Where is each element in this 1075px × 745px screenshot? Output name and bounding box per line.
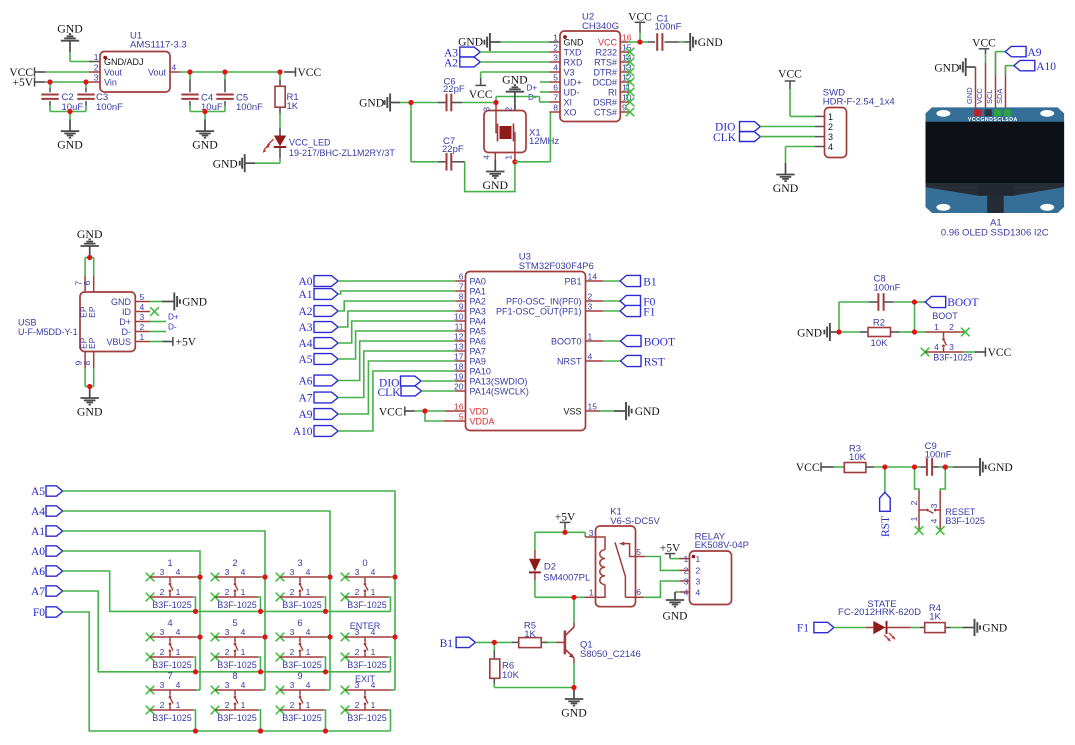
- svg-text:GND: GND: [988, 462, 1013, 474]
- junction at C5: [222, 69, 227, 74]
- svg-text:VCC: VCC: [975, 88, 984, 104]
- svg-text:1: 1: [696, 554, 701, 564]
- svg-text:STM32F030F4P6: STM32F030F4P6: [519, 261, 594, 272]
- svg-text:F0: F0: [33, 607, 45, 619]
- svg-text:4: 4: [306, 627, 311, 637]
- svg-text:3: 3: [482, 107, 492, 112]
- net flag A10 (SDA): [1006, 60, 1057, 110]
- wire keypad ENTER bottom hook: [388, 657, 391, 672]
- svg-text:2: 2: [828, 122, 833, 132]
- resistor R3 10K: [834, 443, 915, 472]
- svg-text:11: 11: [455, 322, 464, 332]
- LED STATE FC-2012HRK-620D: [834, 599, 925, 642]
- wire F0 row bus: [63, 612, 391, 731]
- svg-text:PA6: PA6: [470, 337, 486, 347]
- wire UD+ stub D+: [527, 82, 561, 93]
- svg-text:XI: XI: [564, 98, 573, 108]
- svg-text:5: 5: [232, 618, 237, 629]
- port VCC (SWD): [778, 69, 802, 117]
- capacitor C2 10uF: [41, 82, 83, 113]
- svg-text:7: 7: [553, 93, 558, 103]
- wire A10 to U3: [338, 371, 455, 431]
- svg-text:PA0: PA0: [470, 277, 486, 287]
- left pin stubs U3: [456, 281, 466, 391]
- svg-text:GND: GND: [773, 181, 799, 195]
- net flag A3: [298, 322, 338, 335]
- svg-text:GND: GND: [982, 623, 1007, 635]
- svg-text:2: 2: [225, 647, 230, 657]
- ground GND (C9): [980, 458, 1013, 476]
- svg-text:1: 1: [167, 558, 172, 569]
- net flag F0 (keypad): [33, 607, 63, 619]
- svg-text:3: 3: [355, 567, 360, 577]
- svg-text:GND: GND: [359, 98, 384, 110]
- ground GND (below crystal pin4): [483, 152, 509, 192]
- svg-text:A7: A7: [298, 393, 312, 405]
- port +5V (K1): [555, 511, 576, 532]
- ground GND (above U1 pin1): [57, 22, 89, 62]
- svg-text:PA14(SWCLK): PA14(SWCLK): [470, 387, 529, 397]
- svg-text:12MHz: 12MHz: [529, 136, 559, 147]
- junction C6-C7 branch: [408, 100, 413, 105]
- svg-text:5: 5: [459, 412, 464, 422]
- junction XI-crystal: [493, 100, 498, 105]
- svg-text:2: 2: [696, 566, 701, 576]
- svg-text:Vout: Vout: [148, 68, 167, 78]
- svg-text:FC-2012HRK-620D: FC-2012HRK-620D: [838, 607, 921, 618]
- wire UD- stub D-: [528, 92, 560, 102]
- wire A3 to TXD: [480, 51, 560, 53]
- svg-text:VCC: VCC: [598, 38, 618, 48]
- svg-text:B3F-1025: B3F-1025: [152, 713, 192, 723]
- pushbutton keypad 4 B3F-1025: [146, 618, 200, 670]
- svg-text:BOOT0: BOOT0: [551, 337, 582, 347]
- ground GND (R2): [797, 323, 839, 341]
- svg-text:A1: A1: [990, 217, 1002, 228]
- capacitor C6 22pF: [411, 76, 496, 111]
- svg-text:10K: 10K: [502, 670, 520, 681]
- svg-text:USB: USB: [18, 318, 37, 328]
- resistor R6 10K: [490, 642, 520, 687]
- wire CLK to pin3: [760, 136, 824, 138]
- junction keypad bus r3c3: [323, 728, 328, 733]
- svg-text:B1: B1: [440, 638, 454, 650]
- svg-text:6: 6: [82, 281, 92, 286]
- wire VCC to VDD VDDA: [415, 411, 466, 421]
- svg-text:6: 6: [459, 272, 464, 282]
- port VCC (V3 pin): [469, 85, 493, 100]
- net flag DIO (U3): [379, 376, 421, 389]
- svg-text:B3F-1025: B3F-1025: [217, 713, 257, 723]
- svg-text:1: 1: [176, 647, 181, 657]
- junction keypad column c1r2: [197, 634, 202, 639]
- wire VCC to pin2: [45, 71, 100, 73]
- svg-text:12: 12: [454, 332, 464, 342]
- svg-text:1: 1: [828, 112, 833, 122]
- net flag A7: [298, 392, 338, 405]
- wire A7 to U3: [338, 351, 455, 398]
- port VCC (left): [9, 67, 45, 79]
- port +5V (relay): [660, 542, 690, 558]
- svg-text:A10: A10: [1036, 61, 1056, 73]
- wire pin4 VCC rail: [170, 71, 280, 73]
- wire B1 to R5: [475, 641, 518, 643]
- svg-text:VCC: VCC: [972, 38, 996, 50]
- svg-text:1: 1: [371, 587, 376, 597]
- svg-text:GND: GND: [57, 138, 83, 152]
- svg-text:2: 2: [160, 647, 165, 657]
- svg-text:B3F-1025: B3F-1025: [152, 600, 192, 610]
- svg-text:2: 2: [355, 647, 360, 657]
- svg-text:4: 4: [482, 155, 492, 160]
- svg-text:2: 2: [909, 500, 919, 505]
- net flag DIO (SWD): [715, 122, 760, 134]
- svg-text:DTR#: DTR#: [593, 68, 617, 78]
- wire C2-C3 ground bus: [50, 111, 86, 113]
- ground GND (R4): [975, 619, 1008, 636]
- net flag A9 (SCL): [996, 46, 1042, 110]
- svg-text:RI: RI: [608, 88, 617, 98]
- wire +5V rail to pin3: [45, 81, 100, 83]
- svg-text:SM4007PL: SM4007PL: [543, 573, 590, 584]
- svg-text:3: 3: [290, 680, 295, 690]
- wire A2 to RXD: [480, 61, 560, 63]
- junction keypad bus r2c2: [258, 669, 263, 674]
- svg-text:2: 2: [94, 62, 99, 72]
- ic U3 STM32F030F4P6: [454, 251, 597, 430]
- junction crystal pin1: [512, 152, 517, 164]
- svg-text:+5V: +5V: [12, 77, 33, 89]
- svg-text:4: 4: [371, 680, 376, 690]
- svg-text:A1: A1: [31, 526, 45, 538]
- svg-text:GND: GND: [213, 158, 238, 170]
- svg-text:+5V: +5V: [660, 542, 681, 554]
- svg-text:8: 8: [459, 292, 464, 302]
- capacitor C8 100nF: [839, 274, 915, 311]
- wire A1 to U3: [338, 291, 455, 294]
- svg-text:GND: GND: [561, 706, 587, 720]
- svg-text:VCC: VCC: [469, 89, 493, 101]
- svg-text:4: 4: [828, 142, 833, 152]
- junction +5V K1: [562, 530, 567, 535]
- svg-text:U-F-M5DD-Y-1: U-F-M5DD-Y-1: [18, 327, 78, 337]
- junction ground bus: [67, 109, 72, 114]
- svg-text:VCC: VCC: [298, 67, 322, 79]
- svg-text:D+: D+: [119, 317, 131, 327]
- svg-text:15: 15: [588, 402, 598, 412]
- net flag A5: [298, 354, 338, 367]
- svg-text:3: 3: [297, 558, 302, 569]
- svg-text:1: 1: [306, 587, 311, 597]
- svg-text:4: 4: [371, 567, 376, 577]
- net flag A0 (keypad): [31, 546, 63, 558]
- svg-text:+5V: +5V: [176, 337, 197, 349]
- svg-text:22pF: 22pF: [443, 84, 465, 95]
- svg-text:GND: GND: [182, 297, 207, 309]
- wire USB pin5 to GND: [135, 301, 162, 303]
- junction R2 right: [912, 329, 917, 334]
- wire C4-C5 ground bus: [190, 111, 225, 113]
- capacitor C1 100nF: [640, 14, 690, 51]
- svg-text:2: 2: [355, 700, 360, 710]
- svg-text:8: 8: [82, 361, 92, 366]
- wire USB D- label: [135, 323, 177, 332]
- svg-text:1: 1: [306, 647, 311, 657]
- svg-text:3: 3: [696, 576, 701, 586]
- svg-text:3: 3: [929, 503, 939, 508]
- svg-text:1: 1: [241, 647, 246, 657]
- capacitor C4 10uF: [181, 72, 223, 113]
- junction keypad bus r1c1: [193, 609, 198, 614]
- wire keypad 3 bottom hook: [323, 597, 326, 611]
- svg-text:PA9: PA9: [470, 357, 486, 367]
- svg-text:A2: A2: [298, 306, 312, 318]
- net flag CLK (U3): [378, 386, 422, 399]
- pushbutton keypad 2 B3F-1025: [211, 558, 265, 610]
- svg-text:V3: V3: [564, 68, 575, 78]
- wire GND pin OLED: [975, 67, 977, 110]
- svg-text:PA1: PA1: [470, 287, 486, 297]
- wire A9 to U3: [338, 361, 455, 414]
- wire DIO to PA13: [421, 380, 456, 382]
- svg-text:5: 5: [140, 292, 145, 302]
- svg-text:B3F-1025: B3F-1025: [347, 713, 387, 723]
- svg-text:B3F-1025: B3F-1025: [217, 600, 257, 610]
- wire CLK to PA14: [422, 390, 456, 392]
- svg-text:17: 17: [454, 352, 464, 362]
- svg-text:10K: 10K: [849, 452, 867, 463]
- svg-text:2: 2: [290, 647, 295, 657]
- svg-text:7: 7: [459, 282, 464, 292]
- junction R6 branch: [492, 640, 497, 645]
- wire keypad 4 bottom hook: [193, 657, 196, 672]
- junction keypad bus r2c1: [193, 669, 198, 674]
- wire A4 to U3: [338, 321, 455, 343]
- svg-text:2: 2: [232, 558, 237, 569]
- svg-text:8: 8: [232, 671, 237, 682]
- svg-text:6: 6: [297, 618, 302, 629]
- junction C8 right: [912, 299, 917, 304]
- svg-text:4: 4: [176, 627, 181, 637]
- svg-text:A9: A9: [298, 409, 312, 421]
- svg-text:PA2: PA2: [470, 297, 486, 307]
- svg-text:5: 5: [636, 547, 641, 557]
- svg-text:B3F-1025: B3F-1025: [282, 713, 322, 723]
- svg-text:3: 3: [225, 627, 230, 637]
- svg-text:GND: GND: [797, 328, 822, 340]
- net flag F1 (STATE): [797, 622, 834, 634]
- wire A3 to U3: [338, 311, 455, 327]
- svg-text:1K: 1K: [929, 611, 941, 622]
- svg-text:1: 1: [504, 155, 514, 160]
- net flag A3: [444, 47, 480, 60]
- port VCC (BOOT button): [964, 347, 1012, 359]
- ic U2 CH340G: [553, 12, 631, 122]
- svg-text:100nF: 100nF: [655, 21, 682, 32]
- junction at C2: [47, 79, 52, 84]
- port VCC (right of U1): [280, 67, 321, 79]
- svg-text:5: 5: [553, 73, 558, 83]
- svg-text:D-: D-: [528, 93, 537, 102]
- svg-text:0: 0: [362, 558, 367, 569]
- wire K1 pin5 to relay pin2: [636, 557, 690, 571]
- pushbutton keypad 7 B3F-1025: [146, 671, 200, 723]
- pushbutton keypad EXIT B3F-1025: [341, 674, 395, 723]
- junction pin16: [637, 39, 642, 44]
- pushbutton keypad 1 B3F-1025: [146, 558, 200, 610]
- ground GND (U2 pin1): [458, 33, 500, 51]
- ground GND (VSS): [626, 402, 660, 420]
- wire keypad EXIT bottom hook: [388, 710, 391, 731]
- svg-text:A2: A2: [444, 58, 458, 70]
- svg-text:D+: D+: [168, 313, 179, 322]
- connector USB U-F-M5DD-Y-1: [18, 281, 145, 366]
- svg-text:VSS: VSS: [563, 407, 581, 417]
- no-connect pins 15-9: [620, 48, 634, 117]
- transistor Q1 S8050_C2146: [565, 623, 641, 663]
- ground GND (right of C1): [690, 33, 723, 51]
- net flag RST (pointing up): [880, 467, 892, 537]
- wire C9 to GND: [945, 466, 979, 468]
- svg-text:D-: D-: [168, 323, 177, 332]
- svg-text:2: 2: [504, 107, 514, 112]
- port VCC (R3): [796, 462, 834, 474]
- junction keypad column c1r1: [197, 574, 202, 579]
- svg-text:3: 3: [160, 680, 165, 690]
- svg-text:+5V: +5V: [555, 511, 576, 523]
- wire pin4 to GND: [786, 147, 825, 164]
- LED VCC_LED: [263, 136, 396, 164]
- net flag A6: [298, 375, 338, 388]
- svg-text:PF0-OSC_IN(PF0): PF0-OSC_IN(PF0): [506, 297, 582, 307]
- ground GND (USB top): [77, 227, 103, 258]
- net flag A2: [298, 306, 338, 319]
- svg-text:B3F-1025: B3F-1025: [347, 660, 387, 670]
- crystal X1 12MHz: [482, 107, 560, 160]
- svg-text:2: 2: [160, 700, 165, 710]
- svg-text:18: 18: [454, 362, 464, 372]
- svg-text:PA5: PA5: [470, 327, 486, 337]
- wire keypad 5 bottom hook: [258, 657, 261, 672]
- svg-text:A10: A10: [293, 426, 313, 438]
- svg-text:A9: A9: [1028, 47, 1042, 59]
- junction keypad column c2r2: [262, 634, 267, 639]
- wire keypad 7 bottom hook: [193, 710, 196, 731]
- svg-text:1: 1: [371, 700, 376, 710]
- svg-text:VDD: VDD: [470, 407, 490, 417]
- junction RST branch: [882, 464, 887, 469]
- pushbutton keypad 3 B3F-1025: [276, 558, 330, 610]
- OLED pin labels: [965, 87, 1004, 104]
- svg-text:RST: RST: [880, 516, 892, 537]
- junction at R1: [277, 69, 282, 74]
- wire A0 to U3: [338, 280, 455, 282]
- wire VCC to header pin1: [790, 115, 825, 117]
- wire C8 to R2 vertical: [914, 302, 916, 332]
- svg-text:GND: GND: [57, 22, 83, 36]
- svg-text:4: 4: [934, 342, 939, 352]
- svg-text:DSR#: DSR#: [593, 98, 617, 108]
- svg-text:2: 2: [949, 322, 954, 332]
- port VCC (OLED): [972, 38, 996, 110]
- svg-text:AMS1117-3.3: AMS1117-3.3: [130, 40, 187, 51]
- wire USB shield pins 9 8: [85, 352, 94, 387]
- svg-text:HDR-F-2.54_1x4: HDR-F-2.54_1x4: [823, 97, 895, 108]
- ground GND (USB bottom): [77, 387, 103, 419]
- svg-text:B3F-1025: B3F-1025: [945, 516, 985, 526]
- svg-text:3: 3: [290, 567, 295, 577]
- junction R2 left: [836, 329, 841, 334]
- connector RELAY EK508V-04P: [684, 532, 749, 605]
- svg-text:10: 10: [454, 312, 464, 322]
- svg-text:4: 4: [241, 680, 246, 690]
- wire A4 column bus: [63, 511, 330, 690]
- wire keypad 6 bottom hook: [323, 657, 326, 672]
- svg-text:Vin: Vin: [104, 78, 117, 88]
- svg-text:VCC: VCC: [796, 462, 820, 474]
- svg-text:3: 3: [355, 627, 360, 637]
- svg-text:4: 4: [696, 587, 701, 597]
- wire A6 to U3: [338, 341, 455, 381]
- svg-text:TXD: TXD: [564, 48, 583, 58]
- svg-text:1: 1: [934, 322, 939, 332]
- svg-text:16: 16: [454, 402, 464, 412]
- net flag A9: [298, 409, 338, 422]
- svg-text:PB1: PB1: [564, 277, 581, 287]
- svg-text:D2: D2: [544, 561, 556, 572]
- wire VCC pin16: [620, 41, 640, 43]
- svg-text:D-: D-: [122, 327, 132, 337]
- no-connect USB ID pin: [135, 307, 159, 316]
- net flag B1 (base drive): [440, 637, 476, 650]
- svg-text:A4: A4: [298, 338, 312, 350]
- svg-text:2: 2: [588, 292, 593, 302]
- wire keypad 0 bottom hook: [388, 597, 391, 611]
- svg-text:2: 2: [355, 587, 360, 597]
- svg-text:2: 2: [225, 700, 230, 710]
- svg-text:B3F-1025: B3F-1025: [282, 660, 322, 670]
- wire +5V rail to K1 pin3: [535, 532, 596, 537]
- svg-text:RXD: RXD: [564, 58, 584, 68]
- svg-text:3: 3: [225, 567, 230, 577]
- diode D2 SM4007PL: [529, 532, 590, 597]
- ground GND (LED cathode): [213, 154, 280, 172]
- svg-text:GND: GND: [663, 610, 688, 622]
- ground GND (Q1 emitter): [561, 688, 587, 720]
- svg-text:4: 4: [167, 618, 172, 629]
- svg-text:VBUS: VBUS: [106, 337, 131, 347]
- svg-text:2: 2: [290, 587, 295, 597]
- svg-text:XO: XO: [564, 108, 577, 118]
- svg-text:CH340G: CH340G: [582, 21, 619, 32]
- junction emitter GND: [571, 685, 576, 690]
- net flag A7 (keypad): [31, 586, 63, 598]
- wire keypad 1 bottom hook: [193, 597, 196, 611]
- junction keypad bus r2c3: [323, 669, 328, 674]
- net flag A10: [293, 426, 338, 439]
- wire Q1 emitter to GND rail: [573, 663, 575, 688]
- junction C9 right: [943, 464, 948, 469]
- svg-text:4: 4: [371, 627, 376, 637]
- wire A5 column bus: [63, 491, 395, 690]
- wire crystal to XO: [515, 112, 560, 162]
- svg-text:GND: GND: [77, 227, 103, 241]
- net flag F0 (PF0): [586, 295, 656, 308]
- svg-text:1: 1: [176, 587, 181, 597]
- pushbutton RESET B3F-1025 (vertical): [909, 467, 985, 535]
- svg-text:1: 1: [241, 700, 246, 710]
- wire XI to crystal: [496, 97, 560, 103]
